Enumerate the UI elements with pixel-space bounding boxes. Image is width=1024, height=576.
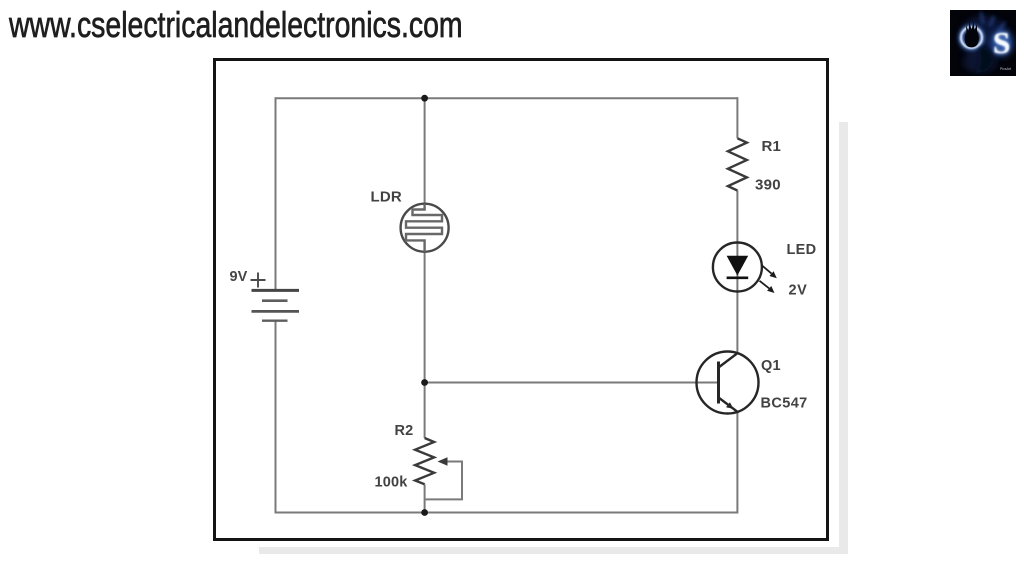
battery B1 plate long 3 bbox=[252, 310, 300, 313]
R2 wiper arrow bbox=[438, 457, 448, 466]
logo CS top-right bbox=[950, 10, 1016, 76]
schematic frame bbox=[213, 58, 829, 541]
transistor Q1 base bar bbox=[717, 362, 720, 404]
faint blue ambience bbox=[959, 16, 1009, 60]
svg-text:LED: LED bbox=[787, 242, 817, 258]
svg-text:BC547: BC547 bbox=[761, 396, 808, 412]
LED cathode bar bbox=[727, 276, 749, 279]
wire right upper (top to R1) bbox=[736, 97, 738, 138]
wire left upper (to battery) bbox=[275, 97, 277, 289]
wire emitter to bottom bbox=[736, 412, 738, 514]
svg-text:2V: 2V bbox=[789, 282, 808, 298]
junction node base bbox=[421, 379, 428, 386]
svg-text:LDR: LDR bbox=[371, 189, 402, 206]
junction node bottom bbox=[421, 509, 428, 516]
wire R2 wiper loop bbox=[426, 462, 462, 500]
svg-text:R2: R2 bbox=[395, 423, 414, 439]
wire R1 to LED to transistor collector bbox=[736, 191, 738, 354]
LED arrow 2 bbox=[760, 281, 775, 293]
resistor R2 zigzag bbox=[415, 438, 434, 484]
wire base (LDR branch to Q1) bbox=[425, 382, 719, 384]
LED triangle bbox=[727, 256, 749, 276]
svg-text:R1: R1 bbox=[762, 138, 782, 155]
battery B1 plate short 2 bbox=[262, 299, 288, 302]
battery B1 plate short 4 bbox=[262, 320, 288, 322]
light streaks bbox=[960, 12, 1010, 44]
website url text bbox=[9, 4, 463, 46]
LED arrow 1 bbox=[762, 265, 777, 278]
hand silhouette over ring bbox=[965, 22, 979, 48]
LDR serpentine element bbox=[406, 204, 442, 252]
drop shadow bottom bbox=[259, 547, 848, 554]
wire top bbox=[276, 97, 738, 99]
svg-text:9V: 9V bbox=[230, 269, 248, 285]
wire bottom bbox=[276, 512, 738, 514]
transistor Q1 emitter line bbox=[719, 398, 738, 413]
battery B1 plate long top bbox=[252, 289, 300, 292]
glow patch behind S bbox=[991, 30, 1013, 56]
transistor Q1 collector line bbox=[719, 353, 738, 368]
transistor Q1 circle bbox=[697, 352, 759, 414]
svg-text:Q1: Q1 bbox=[761, 358, 781, 374]
transistor Q1 emitter arrowhead bbox=[726, 402, 734, 409]
junction node top bbox=[421, 95, 428, 102]
wire LDR to base node to R2 bbox=[424, 252, 426, 438]
svg-text:100k: 100k bbox=[375, 475, 409, 491]
wire left lower (battery to bottom) bbox=[275, 322, 277, 514]
drop shadow right bbox=[839, 122, 848, 554]
LDR circle bbox=[401, 204, 449, 252]
battery plus sign bbox=[251, 273, 266, 288]
glowing C ring bbox=[961, 27, 982, 48]
svg-text:390: 390 bbox=[755, 177, 781, 194]
dark face profile bbox=[976, 46, 993, 72]
LED D1 circle bbox=[713, 243, 762, 292]
resistor R1 zigzag bbox=[728, 138, 747, 190]
wire LDR branch top bbox=[424, 97, 426, 204]
wire R2 to bottom bbox=[424, 484, 426, 513]
